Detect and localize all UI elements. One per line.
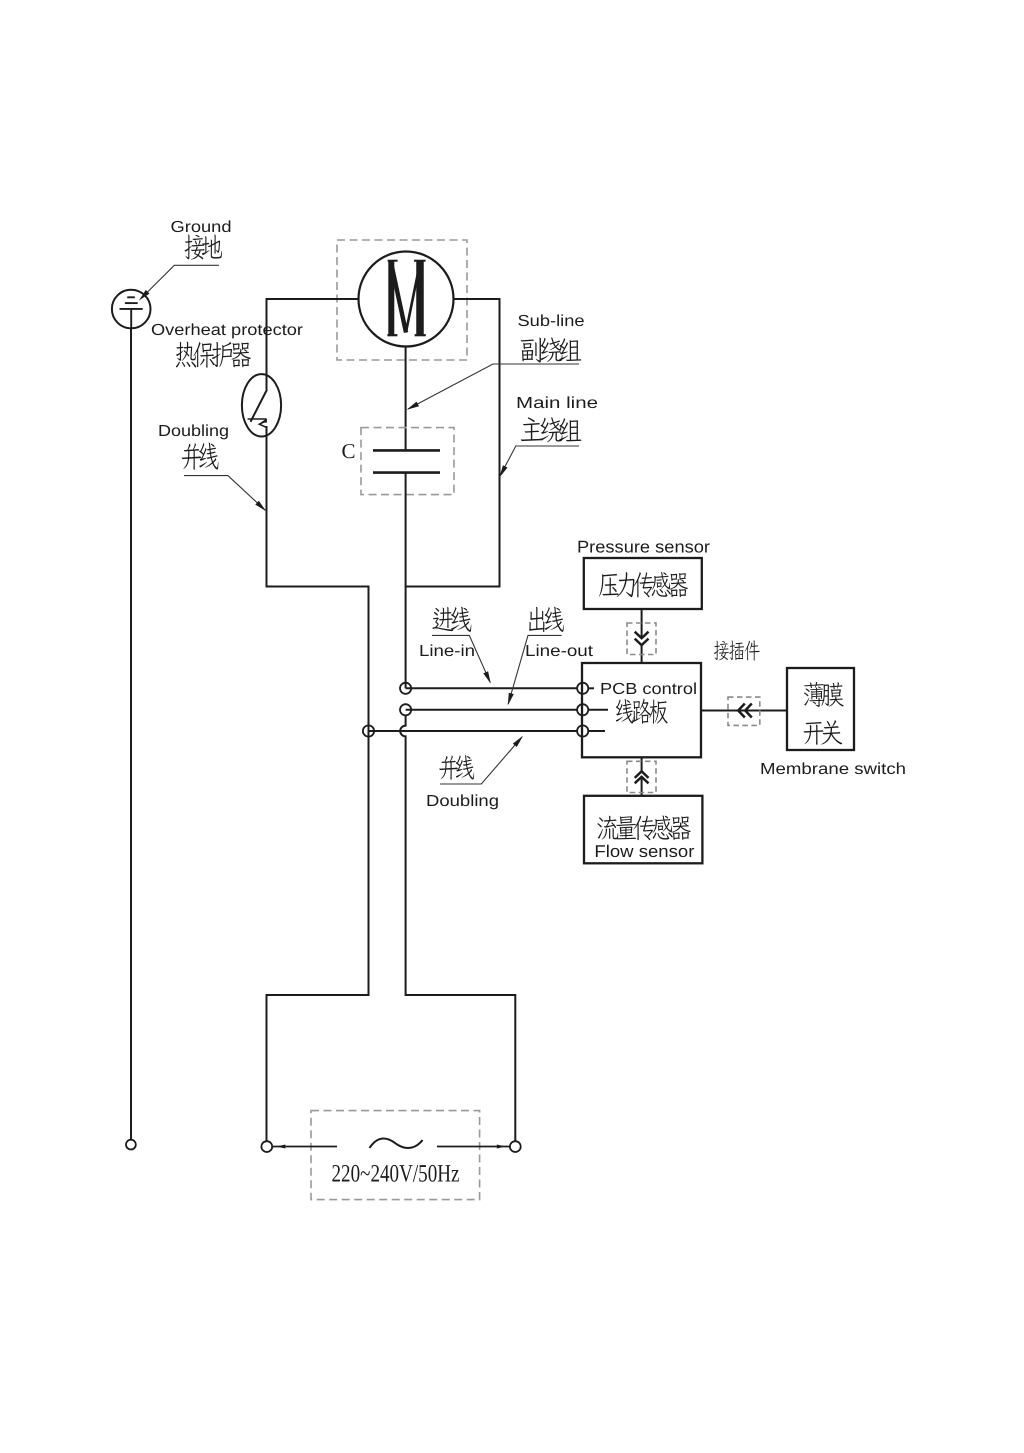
node PCB line-out terminal	[577, 704, 608, 715]
wire right branch to supply	[406, 995, 516, 1141]
PCB control box	[582, 663, 701, 757]
label Doubling / 并线 (left) with leader	[158, 423, 266, 511]
label Sub-line / 副绕组 with leader	[407, 313, 585, 410]
svg-text:Ground: Ground	[171, 219, 232, 236]
node line-out left terminal	[400, 704, 411, 715]
AC sine symbol	[370, 1138, 423, 1148]
label Main line / 主绕组 with leader	[499, 395, 598, 478]
wire PCB to membrane switch	[701, 710, 787, 712]
label 流量传感器	[597, 816, 690, 841]
node PCB doubling terminal	[577, 725, 605, 736]
pressure sensor box	[584, 558, 702, 609]
label 接插件	[714, 640, 760, 660]
membrane switch box	[787, 668, 854, 750]
label 薄膜	[804, 682, 844, 707]
label 并线 Doubling (lower) with leader	[426, 736, 523, 810]
wire line-in	[406, 687, 578, 689]
motor dashed enclosure	[337, 240, 467, 360]
ground symbol	[112, 290, 151, 329]
svg-text:Flow sensor: Flow sensor	[594, 842, 694, 861]
connector (pressure) dashed square with chevrons	[627, 623, 656, 655]
node line-in left terminal	[400, 683, 411, 694]
wire motor left lead	[267, 299, 359, 390]
wire overheat lower lead to doubling branch	[267, 427, 369, 587]
label 出线 Line-out with leader	[508, 607, 594, 706]
svg-text:Line-in: Line-in	[419, 643, 475, 660]
wire from line-out node down (hop over doubling wire)	[400, 715, 405, 995]
label 开关	[804, 720, 843, 745]
label 线路板	[616, 699, 668, 724]
svg-text:C: C	[341, 439, 355, 463]
svg-text:Overheat protector: Overheat protector	[151, 322, 304, 339]
arrow to right supply terminal	[437, 1145, 510, 1149]
wire PCB to flow sensor	[641, 757, 643, 771]
wire capacitor to line-in node	[405, 473, 407, 689]
label Ground / 接地 with leader	[139, 219, 232, 301]
svg-text:PCB control: PCB control	[600, 681, 697, 698]
wire line-out	[406, 709, 578, 711]
wire sub-line motor bottom to capacitor	[405, 347, 407, 451]
capacitor C	[341, 428, 454, 495]
svg-text:Pressure sensor: Pressure sensor	[577, 538, 710, 557]
wire ground conductor	[130, 328, 132, 1139]
power source dashed box	[311, 1111, 480, 1200]
wire pressure sensor to PCB	[641, 609, 643, 638]
svg-text:220~240V/50Hz: 220~240V/50Hz	[332, 1161, 460, 1188]
junction node doubling	[363, 725, 374, 736]
wire motor right lead (main line)	[406, 299, 500, 587]
wire doubling horizontal	[369, 730, 579, 732]
svg-text:Sub-line: Sub-line	[518, 313, 585, 330]
arrow to left supply terminal	[273, 1145, 338, 1149]
connector (membrane) dashed square with chevrons	[728, 697, 760, 725]
label 进线 Line-in with leader	[419, 607, 491, 684]
node PCB line-in terminal	[577, 683, 594, 694]
node right supply terminal	[510, 1141, 521, 1152]
svg-text:Doubling: Doubling	[426, 793, 499, 810]
svg-text:Line-out: Line-out	[525, 643, 594, 660]
svg-text:Doubling: Doubling	[158, 423, 229, 440]
connector (flow) dashed square with chevrons	[627, 761, 656, 792]
node ground end terminal	[126, 1140, 136, 1150]
label Overheat protector / 热保护器	[151, 322, 304, 368]
overheat protector component	[242, 374, 281, 436]
wire left branch to supply	[267, 995, 369, 1141]
svg-text:Main line: Main line	[516, 395, 598, 412]
flow sensor box	[584, 796, 702, 864]
motor M1	[359, 252, 454, 347]
svg-text:Membrane switch: Membrane switch	[760, 761, 906, 778]
wire doubling branch vertical	[368, 587, 370, 996]
node left supply terminal	[261, 1141, 272, 1152]
label 压力传感器	[599, 572, 688, 597]
